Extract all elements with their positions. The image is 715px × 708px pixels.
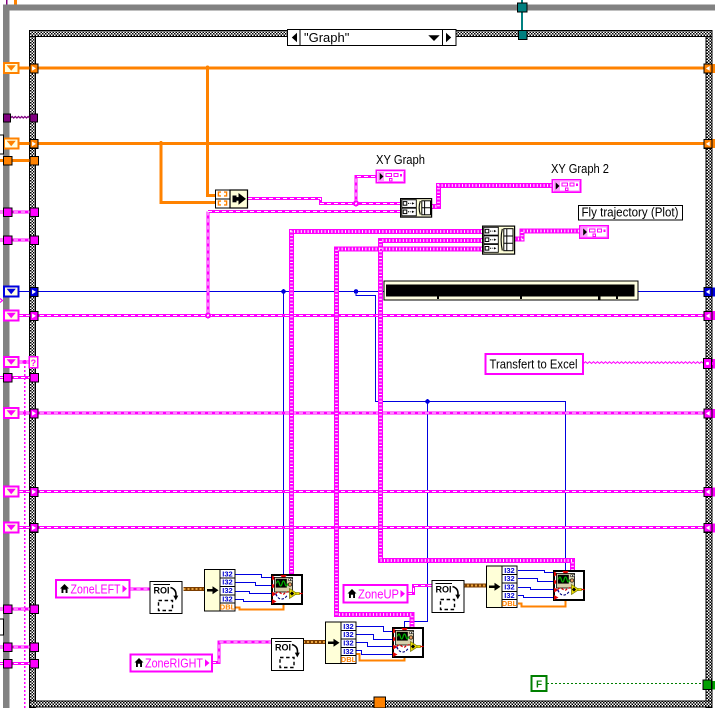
svg-text:?: ?: [31, 358, 37, 368]
sub-VI plot zone 3: [393, 628, 424, 657]
wire green boolean F: [547, 683, 703, 685]
wire cluster from y315 up to node2 in2: [208, 212, 400, 316]
case tunnel green out: [703, 680, 712, 690]
shift register magenta y362: [4, 357, 19, 367]
wire array VI1 to node3 in1: [292, 232, 483, 575]
wire blue I32 horizontal main: [19, 291, 704, 293]
wire orange DBL3 to VI3 bottom: [356, 654, 405, 661]
wire teal refnum vertical: [521, 0, 523, 31]
case tunnel orange out 2: [704, 140, 712, 149]
control Transfert to Excel: [486, 354, 584, 374]
unbundle 1: [205, 569, 236, 611]
case tunnel magenta pair1: [30, 208, 39, 217]
svg-text:Fly trajectory (Plot): Fly trajectory (Plot): [582, 206, 679, 220]
wire squiggle left edge: [0, 299, 3, 303]
wire array VI3 to node3 in3: [337, 249, 483, 627]
junction rings cluster: [205, 313, 211, 319]
wire cluster SR y491: [19, 490, 704, 493]
case tunnel purple: [30, 114, 38, 122]
node1 bundle (XY): [216, 190, 248, 208]
label fragment left edge 1: [0, 135, 4, 154]
case tunnel magenta pair3: [30, 374, 39, 383]
wire cluster SR y413: [19, 411, 704, 414]
ROI VI 1: [150, 582, 182, 614]
wire overlay: dots on brown ROI wires: [184, 586, 487, 643]
wire cluster SR y527: [19, 526, 704, 529]
terminal XY Graph: [376, 170, 404, 182]
case tunnel orange bottom: [374, 697, 386, 708]
unbundle 2: [487, 566, 518, 608]
case tunnel magenta out y363 (dot): [704, 359, 712, 369]
case tunnel magenta pair2: [30, 236, 39, 245]
loop tunnel magenta pair5: [4, 643, 13, 652]
sub-VI plot zone 2: [554, 571, 585, 600]
loop tunnel magenta pair4: [4, 605, 13, 614]
label fragment left edge 2: [0, 619, 4, 635]
case selector label "Graph": [288, 30, 457, 46]
control ZoneUP: [344, 585, 408, 603]
wire array node2 out to XY Graph 2: [432, 186, 552, 207]
terminal Fly trajectory: [580, 226, 608, 238]
shift register orange 2: [4, 138, 19, 148]
wire orange tunnel stub left pair: [0, 159, 30, 162]
wire overlay: white slashes on cluster-array wires: [292, 186, 580, 628]
shift register orange 1: [4, 63, 19, 73]
shift register magenta y491: [4, 486, 19, 496]
right edge continuation patches: [713, 64, 715, 690]
refnum teal tunnel on case border: [519, 31, 528, 40]
control ZoneRIGHT: [131, 655, 213, 672]
loop tunnel purple left: [4, 114, 11, 122]
wire array VI2 to node3 in2: [381, 241, 573, 571]
label Fly trajectory (Plot): [579, 206, 683, 221]
wire purple tick top edge: [6, 0, 8, 5]
shift register magenta y527: [4, 522, 19, 532]
wire blue staircases unbundle3 to VI3: [356, 627, 392, 632]
unbundle 3: [326, 622, 357, 664]
case tunnel orange out 1: [704, 64, 712, 73]
case tunnel magenta out y491: [704, 488, 712, 497]
loop tunnel magenta pair1: [4, 208, 13, 217]
ROI VI 3: [272, 639, 304, 671]
case tunnel magenta in y413: [30, 409, 38, 418]
wire dotted vertical from SR3 junction: [24, 362, 26, 708]
terminal XY Graph 2: [552, 180, 580, 192]
case tunnel magenta pair4: [30, 605, 39, 614]
svg-text:"Graph": "Graph": [304, 30, 350, 45]
wire blue staircases unbundle1 to VI1: [235, 575, 271, 578]
wire cluster left pair stubs: [0, 210, 30, 213]
sub-VI plot zone 1: [272, 575, 303, 604]
junction blue dots: [281, 289, 286, 294]
wire array node3 out to Fly trajectory: [515, 231, 580, 239]
wire overlay: white dashes on cluster wires: [0, 177, 704, 664]
cluster wires: magenta with white dashes: [0, 177, 704, 664]
wire orange horizontal 1 (DBL array from shift register): [19, 67, 704, 70]
case tunnel magenta pair6: [30, 660, 39, 669]
case tunnel magenta in y527: [30, 524, 38, 533]
refnum teal square on loop border: [518, 3, 528, 12]
wire wavy string Transfert to Excel: [584, 362, 704, 364]
case tunnel magenta in y491: [30, 488, 38, 497]
svg-text:ZoneRIGHT: ZoneRIGHT: [145, 657, 203, 671]
case tunnel magenta out y315: [704, 312, 712, 321]
wire orange vertical to node1 input2: [161, 144, 215, 203]
wire blue staircases unbundle2 to VI2: [518, 571, 553, 573]
svg-text:XY Graph: XY Graph: [376, 153, 425, 167]
loop tunnel magenta pair6: [4, 660, 13, 669]
wire orange DBL2 to VI2 bottom: [518, 600, 566, 607]
wire orange horizontal 2: [19, 142, 704, 145]
shift register blue: [4, 286, 19, 296]
case tunnel blue in: [30, 288, 38, 297]
case tunnel orange in 1: [30, 64, 38, 73]
case tunnel magenta in y315: [30, 312, 38, 321]
wire blue right stub: [712, 291, 715, 293]
wire magenta right stubs: [712, 316, 715, 528]
svg-text:Transfert to Excel: Transfert to Excel: [490, 358, 578, 372]
shift register magenta y413: [4, 408, 19, 418]
case tunnel blue out: [704, 288, 712, 297]
wire blue branch to VI2 top: [356, 292, 566, 571]
wire orange tick top edge: [14, 0, 17, 5]
wire cluster-array hatched wires: [292, 186, 580, 628]
wire brown ROI descriptors: [184, 586, 487, 643]
wire purple wavy path: [11, 117, 30, 119]
wire cluster ZoneLEFT to ROI1: [130, 587, 151, 590]
constant False: [532, 676, 547, 691]
wire blue vertical to VI1 top: [283, 292, 285, 575]
wire cluster branch to XY Graph terminal: [356, 177, 376, 204]
loop tunnel square orange pair: [4, 157, 13, 166]
svg-text:XY Graph 2: XY Graph 2: [551, 162, 609, 176]
wire cluster SR3 to ? tunnel: [19, 360, 29, 363]
wire orange DBL1 to VI1 bottom: [235, 604, 284, 610]
case tunnel unwired ?: [29, 357, 38, 368]
case tunnel orange pair: [30, 157, 39, 166]
wire blue branch to VI3 top: [405, 402, 428, 628]
wire cluster ZoneRIGHT to ROI3: [212, 642, 271, 663]
wire cluster SR y315: [19, 314, 704, 317]
case tunnel magenta out y527: [704, 524, 712, 533]
case tunnel orange in 2: [30, 140, 38, 149]
node2 build cluster array (2 rows): [401, 199, 432, 218]
svg-text:F: F: [536, 680, 542, 691]
control ZoneLEFT: [56, 580, 130, 598]
case tunnel magenta out y413: [704, 409, 712, 418]
case tunnel magenta pair5: [30, 643, 39, 652]
ROI VI 2: [432, 581, 464, 613]
node3 build cluster array (3 rows): [483, 226, 515, 254]
string constant (black text box): [384, 281, 638, 300]
svg-text:ZoneUP: ZoneUP: [358, 588, 399, 602]
wire orange vertical to node1 input1: [208, 68, 216, 196]
shift register magenta y315: [4, 310, 19, 320]
svg-text:ZoneLEFT: ZoneLEFT: [71, 583, 121, 597]
loop tunnel magenta pair3: [4, 374, 13, 383]
wire orange right stubs: [712, 68, 715, 144]
wire cluster node1 out to node2 in1: [248, 199, 400, 204]
wire cluster ZoneUP to ROI2: [408, 586, 432, 594]
junction orange dots: [205, 66, 210, 71]
loop tunnel magenta pair2: [4, 236, 13, 245]
